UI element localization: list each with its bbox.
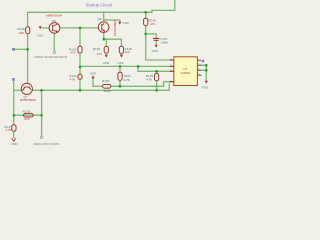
svg-text:VSS: VSS [37,34,43,38]
wire Q8 collector to rail [103,12,105,22]
transistor Q9 [46,13,62,33]
junction R139 top [155,70,158,73]
wire emitter node to R146 and R145 [104,39,122,46]
svg-text:P2RCH PR 4K/CGW P/E 2K: P2RCH PR 4K/CGW P/E 2K [35,55,68,59]
svg-text:Q9: Q9 [52,19,56,23]
svg-text:VDD: VDD [11,142,18,146]
node X3 at U1 right [202,60,204,62]
wire left column mid [27,34,29,84]
svg-text:4.7K: 4.7K [146,77,153,81]
junction line2 R142 [79,89,82,92]
wire branch to VSS arrow [104,20,120,22]
wire line1 to IC pin4 [111,82,174,87]
wire R136 column to IC pin1 [146,34,174,60]
svg-text:PERCH (PN) 27K/450: PERCH (PN) 27K/450 [34,142,60,146]
resistor R142 [69,53,82,90]
wire VSS stem to line1 [93,78,103,86]
svg-text:R150: R150 [102,79,110,83]
resistor R139 [146,71,159,90]
junction bus3 left [13,114,16,117]
wire top rail [28,0,175,12]
transistor Q7 [20,83,36,102]
svg-text:47K: 47K [6,128,12,132]
wire Q9 emitter [53,33,55,50]
supply VSS under R145 [120,54,122,55]
resistor R176 [22,110,33,122]
svg-text:MMBT8066: MMBT8066 [20,98,36,102]
junction line2 x41.6 [40,89,43,92]
wire Q9 collector to Q8 base [60,27,99,29]
svg-text:18K: 18K [19,31,25,35]
svg-text:47K: 47K [24,117,30,121]
supply VSS at Q8 [118,22,121,25]
resistor R135 [26,27,30,34]
wire U1 right pins to VSS [197,65,206,80]
resistor R136 [144,11,157,35]
op-amp U1 [174,57,198,86]
node open end [53,51,56,54]
resistor R151 [118,66,131,86]
svg-text:Q8: Q8 [97,17,101,21]
svg-text:VSS: VSS [152,49,158,53]
svg-text:22K: 22K [125,50,131,54]
wire X1 to left column [14,48,28,50]
resistor R146 [93,46,109,56]
resistor R150 [102,79,111,93]
supply VSS at Q9 base [39,26,42,29]
junction [79,27,82,30]
svg-text:47K: 47K [70,50,76,54]
svg-text:VSS: VSS [117,61,123,65]
junction bus3 right [40,114,43,117]
svg-text:LM363: LM363 [181,71,191,75]
supply VSS under C157 [155,41,157,45]
resistor R137 [4,115,16,138]
junction R139 bottom [155,89,158,92]
svg-text:MMBT8054: MMBT8054 [113,20,117,36]
transistor Q8 [97,17,116,36]
svg-text:R176: R176 [22,110,30,114]
wire Q8 emitter down [103,33,105,40]
junction bus1/pin3 branch [137,65,140,68]
svg-text:47K: 47K [97,52,103,56]
svg-text:47K: 47K [70,77,76,81]
svg-text:VSS: VSS [90,72,96,76]
resistor R145 [119,46,132,54]
node X2 [12,78,14,80]
supply VDD bottom [12,138,16,141]
supply VDD under R146 [105,53,107,55]
svg-text:VSS: VSS [123,21,129,25]
svg-text:R146: R146 [93,47,101,51]
junction bus1/R151 [119,65,122,68]
junction U1 right lower [205,69,208,72]
wire left lower column [13,81,15,116]
svg-text:4.7K: 4.7K [124,78,131,82]
svg-text:Startup Circuit: Startup Circuit [86,2,113,7]
wire VSS to Q9 base [42,27,50,29]
U1 pin stubs [170,60,202,82]
node open end lower [40,136,43,139]
svg-text:47K: 47K [150,22,156,26]
wire left column upper [27,12,29,27]
svg-text:104n: 104n [161,41,168,45]
node X1 [12,48,14,50]
svg-text:MMBT8054: MMBT8054 [46,13,62,17]
junction [103,38,106,41]
wire line2 [32,83,169,90]
svg-text:VSS: VSS [202,86,208,90]
wire bus3 [14,114,42,116]
supply VSS right [205,81,208,84]
wire R136 node to C157 [146,34,157,38]
svg-text:VDD: VDD [103,61,110,65]
junction U1 right [205,64,208,67]
junction bus1/R143 column [79,66,82,69]
wire pin3 branch [138,66,174,71]
wire bus1 to IC pin2 [80,65,174,67]
wire x41.6 column [41,90,43,136]
junction R151 bottom [119,85,122,88]
junction [26,48,29,51]
wire Q7 left pin [14,89,22,91]
capacitor C157 [153,37,168,45]
wire stub to R146 [105,39,107,46]
wire U1 right pin stub top [197,59,201,61]
resistor R143 [69,28,82,54]
wire U1 right pin4 stub [197,74,201,76]
wire U1 right pin3 stub [197,69,206,71]
